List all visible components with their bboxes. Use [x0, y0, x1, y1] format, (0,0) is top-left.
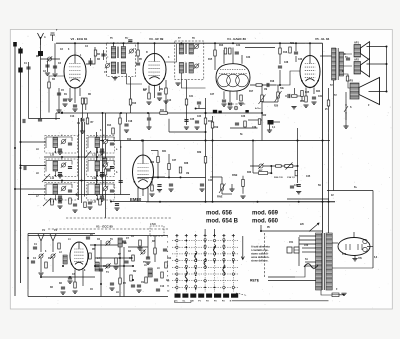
ground v5a	[303, 104, 308, 106]
wire rail y201 left	[111, 201, 146, 203]
wire antenna down	[40, 45, 42, 118]
capacitor C28	[61, 286, 65, 288]
capacitor C31 elec	[294, 247, 299, 253]
resistor R33c	[204, 157, 207, 164]
wire osc section	[49, 76, 64, 82]
dot v2 top	[74, 42, 76, 44]
capacitor bankC25	[38, 118, 42, 120]
coil bank A row 3 box	[45, 183, 78, 201]
resistor R30	[258, 119, 261, 125]
resistor R31	[104, 169, 107, 175]
dashed section line 1	[66, 217, 172, 219]
wire v2 pins	[69, 88, 71, 98]
transformer secondary	[326, 233, 332, 290]
wire tuner rail	[28, 235, 168, 237]
ground c23	[194, 126, 199, 128]
capacitor C41	[147, 117, 151, 119]
IFT1 shield box	[107, 43, 136, 77]
svg-text:CV: CV	[42, 230, 46, 232]
speaker AP1	[354, 45, 361, 58]
svg-text:R13: R13	[219, 45, 224, 47]
coil bank A row 2 (L12)	[46, 161, 72, 172]
wire left rail y194	[28, 194, 130, 196]
IFT2 trimmer	[195, 45, 199, 49]
dot j3	[141, 140, 143, 142]
wire v4 tops	[223, 50, 225, 64]
svg-text:A.Tot: A.Tot	[255, 107, 261, 110]
ground r28	[291, 106, 296, 108]
button bracket	[175, 301, 192, 303]
wire bank top2	[29, 118, 61, 120]
dot j1	[205, 140, 207, 142]
ground v1	[72, 290, 77, 292]
transformer core	[322, 233, 324, 290]
svg-text:1M: 1M	[186, 173, 189, 175]
wire em80 y177	[137, 176, 205, 178]
wire r7b	[165, 80, 167, 88]
variable core arrow r2	[43, 198, 51, 206]
speaker AP2	[354, 62, 361, 75]
ground c37	[145, 261, 150, 263]
tuning gang 1	[38, 234, 44, 252]
wire y128 link	[230, 127, 258, 129]
wire fine2	[277, 85, 279, 92]
wire mains to switch	[295, 266, 305, 277]
svg-text:C25: C25	[190, 119, 195, 121]
dot tun1	[94, 244, 96, 246]
resistor R10 left	[214, 50, 217, 56]
wire c15	[279, 70, 281, 85]
wire ot top	[320, 55, 332, 57]
svg-text:R10: R10	[132, 103, 137, 105]
capacitor C36d	[200, 183, 204, 185]
resistor R13	[279, 48, 282, 54]
wire ift2 out	[181, 73, 205, 88]
wire tuner y245b	[128, 246, 148, 248]
wire c3	[54, 43, 56, 73]
wire r1r2	[82, 104, 84, 113]
wire v2 anode right	[86, 47, 95, 64]
blob right	[245, 110, 248, 112]
wire tuner vert x95	[94, 245, 96, 262]
IFT1 trimmer 2	[106, 64, 110, 68]
tube V2 ECH81	[64, 55, 86, 88]
wire em80 grid feed	[168, 119, 170, 132]
variable core arrow	[42, 174, 50, 182]
capacitor C39	[86, 236, 90, 238]
svg-text:C30: C30	[298, 59, 303, 61]
switch matrix column lines	[176, 234, 178, 292]
capacitor C42	[197, 101, 201, 103]
wire r20	[119, 113, 121, 118]
tube base bracket	[224, 103, 246, 105]
capacitor C33	[290, 185, 294, 187]
ground r left	[240, 195, 245, 197]
dot j2	[322, 140, 324, 142]
svg-text:R38: R38	[184, 163, 189, 165]
svg-text:R11: R11	[148, 273, 153, 275]
wire mid vert x102	[102, 113, 104, 196]
coil bank B row 2 (L13)	[88, 161, 114, 172]
dashed section line 2	[48, 228, 168, 230]
wire tuner bottom	[28, 296, 168, 298]
tube V1 ECC85	[70, 242, 88, 270]
tuning gang 2	[50, 234, 56, 252]
wire r29	[301, 97, 303, 102]
switch matrix top ticks	[175, 235, 178, 237]
ground c5b	[80, 130, 85, 132]
wire tuner y258	[95, 257, 133, 259]
wire fuse gnd	[339, 294, 344, 296]
wire c17	[295, 43, 297, 51]
antenna A2 short	[50, 33, 55, 41]
resistor R18	[157, 157, 160, 163]
switch matrix row lines	[172, 240, 239, 242]
capacitor C36c	[169, 183, 173, 185]
coil bank B row 2 box	[87, 159, 115, 177]
tube EM80	[133, 155, 154, 189]
IFT2 core 2	[184, 63, 186, 74]
resistor T12	[58, 243, 61, 249]
wire tuner y266	[95, 265, 133, 267]
wire tuner y277	[41, 276, 95, 278]
svg-text:V5 - EL 84: V5 - EL 84	[315, 37, 330, 41]
wire em80 left	[120, 141, 122, 195]
wire ht rail y232	[261, 230, 323, 232]
svg-text:V2 - ECH 81: V2 - ECH 81	[71, 37, 88, 41]
choke blob bus1	[18, 49, 22, 54]
resistor T14	[89, 253, 92, 259]
capacitor C15	[278, 65, 282, 67]
capacitor C tone	[297, 184, 301, 186]
resistor R16b	[276, 165, 282, 168]
gang cap 2	[51, 254, 55, 258]
resistor R tone	[295, 170, 298, 175]
switch matrix contacts	[176, 239, 178, 241]
wire vol down	[252, 166, 254, 173]
coil bank B row 3 (L15)	[88, 184, 114, 195]
svg-text:L11: L11	[92, 154, 97, 157]
wire right vert x373	[372, 191, 374, 269]
wire tone left	[242, 176, 244, 194]
wire c26b	[229, 113, 231, 128]
coupling choke	[38, 51, 43, 56]
L7L8 box	[150, 226, 164, 236]
pot ATot	[261, 95, 264, 102]
svg-text:R23: R23	[300, 101, 305, 103]
svg-text:R26 C33: R26 C33	[274, 177, 283, 179]
capacitor C36b	[157, 184, 161, 186]
svg-text:R13: R13	[167, 258, 172, 260]
resistor R12	[256, 84, 262, 87]
svg-text:5Y3: 5Y3	[342, 254, 347, 256]
svg-text:FO: FO	[222, 301, 225, 303]
wire ift1 out	[127, 74, 143, 85]
wire mid vert x205	[205, 98, 207, 202]
wire v1 out	[90, 244, 118, 246]
resistor R29	[301, 91, 304, 97]
ground c8	[157, 97, 162, 99]
resistor R7b	[165, 88, 168, 94]
switch matrix arrow	[241, 236, 244, 260]
svg-text:CM: CM	[190, 301, 194, 303]
wire gang rail	[28, 233, 95, 235]
dot j6	[212, 140, 214, 142]
svg-text:RETE: RETE	[250, 279, 260, 283]
svg-text:R15: R15	[208, 59, 213, 61]
wire rail y190 right	[327, 190, 373, 192]
wire HT rail y140	[100, 140, 330, 142]
capacitor C34	[287, 94, 289, 98]
trimmer T5	[141, 250, 145, 254]
IFT1 core 2	[116, 62, 118, 74]
capacitor C1	[26, 66, 30, 68]
wire tuner v1	[27, 234, 29, 297]
ground ift2b	[184, 126, 189, 128]
ground osc	[56, 109, 61, 111]
resistor R24b	[211, 122, 214, 128]
svg-text:R12: R12	[127, 139, 132, 141]
resistor R1 cathode	[81, 98, 84, 104]
wire AVC rail y202	[146, 201, 335, 203]
wire osc down	[58, 88, 60, 110]
dots tuner	[40, 276, 42, 278]
wire ground bus left outer	[14, 42, 16, 296]
coil L16	[103, 158, 107, 166]
dot vol	[270, 165, 272, 167]
svg-text:R30: R30	[150, 162, 155, 164]
resistor R33b	[179, 167, 182, 173]
matrix dash to rete	[236, 293, 247, 296]
ground c22	[124, 129, 129, 131]
resistor R37 on rail	[160, 112, 168, 115]
svg-text:A tutti alimenta: A tutti alimenta	[251, 245, 270, 249]
capacitor C21b	[119, 180, 123, 182]
IFT1 trimmer 1	[130, 49, 134, 53]
ground c5	[72, 108, 77, 110]
svg-text:R39: R39	[197, 152, 202, 154]
wire fb line	[297, 128, 299, 166]
svg-text:C28: C28	[284, 62, 289, 64]
svg-text:AP2: AP2	[354, 59, 359, 62]
resistor R2	[85, 98, 88, 104]
dot v3 top	[154, 42, 156, 44]
ground r32	[149, 193, 154, 195]
svg-text:1M: 1M	[264, 89, 267, 91]
svg-text:L12: L12	[50, 177, 55, 180]
fuse F1	[332, 293, 339, 297]
capacitor C13a	[222, 99, 226, 101]
svg-text:mod. 669: mod. 669	[252, 211, 279, 217]
IFT1 core	[116, 47, 118, 59]
wire v6 right	[367, 246, 373, 248]
ground v4c	[238, 102, 243, 104]
wire mains 2	[295, 280, 316, 282]
wire em80 pins	[137, 187, 139, 202]
pot FINE2	[277, 92, 280, 98]
svg-text:R22: R22	[262, 115, 267, 117]
capacitor C29	[154, 278, 158, 280]
ground v5b	[311, 101, 316, 103]
antenna A1	[38, 33, 44, 45]
mains plug	[268, 277, 295, 281]
capacitor C3	[53, 65, 57, 67]
resistor R26	[161, 272, 164, 278]
svg-text:L13: L13	[92, 177, 97, 180]
wire tone vert x297	[297, 166, 299, 183]
wire v5 pins	[305, 88, 307, 97]
wire r32	[151, 177, 153, 185]
wire vol link	[270, 166, 272, 173]
wire tap bus	[298, 237, 300, 266]
wire right vert x333	[333, 80, 335, 191]
wire top rail	[56, 42, 323, 44]
resistor R28	[292, 95, 298, 98]
wire tuner x124	[123, 247, 125, 297]
wire ot links	[344, 54, 353, 88]
IFT1 primary coil	[111, 47, 115, 59]
wire right vert x322	[322, 43, 324, 233]
capacitor C6 osc	[57, 92, 61, 94]
wire mid vert x105	[105, 113, 107, 218]
wire bank row sep1	[44, 156, 115, 158]
resistor T18	[130, 275, 133, 281]
capacitor C8b	[136, 62, 140, 64]
wire rail y113 stub	[55, 113, 57, 120]
resistor R8b	[185, 99, 188, 105]
switch S1	[304, 264, 318, 269]
switch sp	[344, 106, 348, 112]
dot bus1	[14, 147, 16, 149]
resistor R3	[94, 50, 97, 56]
svg-text:PU: PU	[267, 227, 271, 229]
capacitor C2	[45, 64, 49, 66]
wire tuner vert x148	[147, 236, 149, 258]
svg-text:R17: R17	[249, 91, 254, 93]
wire det down x262	[261, 85, 263, 141]
capacitor T22	[163, 248, 167, 250]
coil L3	[63, 255, 67, 264]
capacitor C35 blob	[268, 120, 274, 125]
svg-text:mod. 656: mod. 656	[206, 211, 233, 217]
speaker AP3	[350, 83, 359, 99]
capacitor C32 elec	[287, 247, 292, 253]
wire fine1	[221, 177, 223, 184]
svg-text:C10: C10	[70, 116, 75, 118]
capacitor C7 top	[128, 39, 132, 41]
dark blob cluster	[213, 110, 217, 114]
capacitor C37	[146, 256, 150, 258]
capacitor C26b	[235, 122, 239, 124]
coil bank B row 1 box	[87, 136, 115, 154]
OT core	[336, 48, 338, 80]
svg-text:C34 1,2: C34 1,2	[287, 176, 295, 179]
coil bank B row 3 box	[87, 183, 115, 201]
wire sp3 to gnd	[345, 114, 347, 126]
trimmer T4	[106, 264, 110, 268]
dot j5	[205, 112, 207, 114]
capacitor C11	[235, 51, 239, 53]
svg-text:R18: R18	[270, 81, 275, 83]
ground c38	[109, 287, 114, 289]
resistor R left	[242, 179, 245, 186]
resistor R27	[139, 240, 142, 246]
resistor R24	[74, 282, 77, 288]
wire det out	[250, 84, 276, 86]
capacitor C22	[124, 123, 128, 125]
dot bank1	[61, 112, 63, 114]
switch pushbuttons	[175, 294, 181, 298]
resistor R35	[119, 278, 122, 284]
svg-text:C31: C31	[318, 96, 323, 98]
bank bottom extra	[73, 203, 77, 205]
wire c4	[90, 58, 92, 66]
ground fine1	[229, 188, 234, 190]
svg-text:C23: C23	[246, 57, 251, 59]
capacitor C5	[73, 104, 77, 106]
tone box	[259, 172, 268, 175]
capacitor T10	[33, 246, 37, 248]
wire v5 top	[309, 43, 311, 55]
gang cap 1	[39, 254, 43, 258]
svg-text:R31: R31	[162, 151, 167, 153]
ground c2	[45, 72, 50, 74]
IFT2 coil 3	[179, 63, 183, 74]
resistor R15	[289, 47, 292, 53]
ground r7b	[163, 100, 168, 102]
capacitor C5b	[80, 118, 84, 120]
IFT2 shield box	[175, 41, 204, 80]
resistor T20	[145, 277, 148, 283]
capacitor C left	[106, 168, 110, 170]
wire tone row	[253, 172, 259, 174]
svg-text:R11: R11	[160, 110, 165, 112]
coil L6	[148, 268, 152, 277]
ground ift2	[175, 82, 180, 84]
coil bank B row 1 (L11)	[88, 137, 114, 148]
switch lever squiggles	[195, 251, 197, 262]
wire v3 top	[154, 43, 156, 53]
svg-text:R20: R20	[274, 106, 279, 108]
resistor sp2	[346, 76, 349, 81]
wire tuner x101	[100, 240, 102, 297]
wire r28	[285, 95, 287, 97]
svg-text:L15: L15	[92, 201, 97, 204]
IFT2 coil 1	[179, 44, 183, 55]
bank bottom gnds	[57, 205, 62, 207]
wire r18	[157, 151, 159, 157]
svg-text:C11: C11	[143, 89, 148, 91]
capacitor C30	[131, 284, 135, 286]
ground v4b	[227, 106, 232, 108]
svg-text:C50: C50	[304, 245, 309, 247]
ground v4a	[221, 103, 226, 105]
dot em80	[142, 140, 144, 142]
resistor R2b	[86, 118, 89, 124]
wire right vert x328	[328, 88, 330, 233]
OT primary	[332, 48, 336, 80]
dots sp bus	[386, 46, 388, 48]
capacitor on bus1	[22, 119, 24, 123]
wire v6 top	[353, 232, 355, 238]
resistor T16	[115, 258, 118, 264]
resistor R14	[305, 96, 308, 102]
capacitor C23	[195, 120, 199, 122]
svg-text:R14: R14	[107, 124, 112, 127]
svg-text:sione della re.: sione della re.	[251, 259, 269, 263]
svg-text:C22: C22	[236, 45, 241, 47]
resistor R19	[168, 164, 171, 170]
